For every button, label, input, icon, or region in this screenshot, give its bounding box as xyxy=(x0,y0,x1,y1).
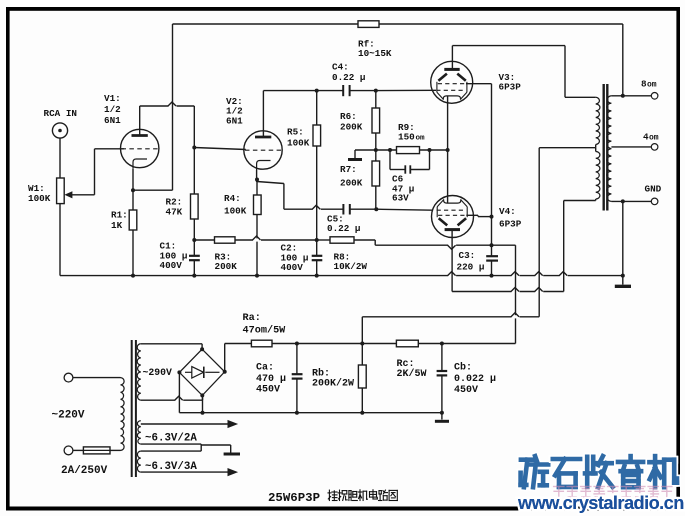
resistor R3 xyxy=(194,236,316,243)
resistor R7 xyxy=(372,150,380,209)
label GND xyxy=(645,184,662,195)
resistor Ra xyxy=(251,340,396,347)
node: ground rail junctions xyxy=(131,274,625,278)
ground symbol at PSU rail end xyxy=(435,413,449,422)
svg-text:100K: 100K xyxy=(287,138,310,149)
node: PSU rail junctions xyxy=(201,411,444,415)
wire: V3 screen to screen column xyxy=(466,84,492,246)
label R7: 200K xyxy=(340,164,363,189)
label Ca: 470u 450V xyxy=(256,363,286,396)
label C5: 0.22u xyxy=(327,214,360,235)
svg-text:0.22 µ: 0.22 µ xyxy=(327,223,360,234)
node: 8ohm / feedback junction xyxy=(621,94,625,98)
node: cathode column at bias line xyxy=(446,148,450,152)
label V2: 1/2 6N1 xyxy=(226,96,243,127)
wire: V2 cathode lead xyxy=(256,170,258,182)
node: V1 cathode / R1 / feedback xyxy=(131,188,135,192)
svg-text:450V: 450V xyxy=(256,385,280,396)
label Rb: 200K/2W xyxy=(312,368,354,390)
transformer T1 heater winding 6.3V/3A xyxy=(137,451,140,472)
wire+arrow: heater 2A top lead xyxy=(141,420,238,428)
transformer T2 output: primary winding xyxy=(596,97,600,200)
svg-text:63V: 63V xyxy=(392,193,409,204)
terminal GND xyxy=(651,198,658,205)
node: V4 screen junction xyxy=(490,215,494,219)
svg-text:R4:: R4: xyxy=(224,193,241,204)
wire: bridge minus to PSU ground rail xyxy=(178,372,180,412)
svg-text:R1:: R1: xyxy=(111,210,128,221)
svg-text:6N1: 6N1 xyxy=(104,115,121,126)
wire: W1 bottom to ground rail xyxy=(59,204,61,276)
svg-text:0.022 µ: 0.022 µ xyxy=(454,374,496,385)
svg-text:220 µ: 220 µ xyxy=(457,262,485,273)
transformer T1 heater winding 6.3V/2A xyxy=(137,421,140,444)
svg-text:47om/5W: 47om/5W xyxy=(243,325,287,337)
resistor R2 xyxy=(191,148,199,241)
vacuum tube V3 (6P3P beam tetrode) xyxy=(431,61,473,103)
wire: vertical B screen supply to B+ line xyxy=(515,245,517,343)
svg-text:om: om xyxy=(416,135,426,143)
node: R5/C2 on B+ bus xyxy=(315,238,319,242)
node: R2/C1/R3 junction on B+ bus xyxy=(192,238,196,242)
wire: PSU ground rail xyxy=(179,412,442,414)
wire: bias line to R9 xyxy=(376,149,397,151)
wire: V4 screen to screen column xyxy=(466,215,491,216)
wire: feedback rail from 8ohm tap to V1 cathode xyxy=(133,24,623,190)
svg-text:6N1: 6N1 xyxy=(226,116,243,127)
watermark logo (5 chinese characters, drawn strokes) xyxy=(521,456,677,487)
label 2A/250V xyxy=(61,465,108,477)
wire: V3 grid wire xyxy=(376,89,436,91)
watermark url www.crystalradio.cn xyxy=(517,493,684,513)
label R3: 200K xyxy=(215,252,238,273)
node: V2 cathode junction xyxy=(255,178,259,182)
label R2: 47K xyxy=(166,197,183,218)
wire: jack to W1 top xyxy=(59,138,61,178)
resistor R5 xyxy=(313,91,321,240)
vacuum tube V2 (1/2 6N1 triode) xyxy=(244,131,282,170)
svg-text:R5:: R5: xyxy=(287,127,304,138)
capacitor C1 xyxy=(189,240,200,276)
ground symbol heater center xyxy=(224,445,240,454)
svg-text:R6:: R6: xyxy=(340,111,357,122)
wire+arrow: heater 3A bottom lead xyxy=(141,468,238,476)
wire: V2 cathode to C5 xyxy=(257,182,343,211)
wire: W1 wiper to V1 grid xyxy=(73,149,125,195)
transformer T2 secondary winding xyxy=(607,96,612,202)
label V1: 1/2 6N1 xyxy=(104,93,121,126)
capacitor C2 xyxy=(312,240,323,276)
svg-text:6P3P: 6P3P xyxy=(499,219,522,230)
capacitor C3 xyxy=(486,245,498,275)
terminal 4om xyxy=(651,144,658,151)
label R9: 150om xyxy=(398,122,425,143)
label V3: 6P3P xyxy=(499,72,522,93)
node: C5 / R7 / V4 grid xyxy=(374,207,378,211)
svg-text:~6.3V/2A: ~6.3V/2A xyxy=(145,433,197,445)
svg-text:~290V: ~290V xyxy=(143,367,173,378)
wire: V3/V4 common cathode column xyxy=(447,96,449,203)
label Cb: 0.022u 450V xyxy=(454,362,496,397)
label C2: 100u 400V xyxy=(281,243,309,273)
ground symbol at rail end xyxy=(615,276,631,287)
label RCA IN xyxy=(44,108,77,119)
capacitor Ca xyxy=(292,344,303,413)
svg-text:V1:: V1: xyxy=(104,93,121,104)
label 8om xyxy=(641,79,657,90)
node: Ca junction xyxy=(295,342,299,346)
resistor Rf xyxy=(358,21,379,28)
svg-text:R7:: R7: xyxy=(340,164,357,175)
node: V1 plate / V2 grid coupling xyxy=(192,146,196,150)
node: bridge corners xyxy=(177,347,226,397)
resistor Rb xyxy=(358,344,366,413)
label C1: 100u 400V xyxy=(160,241,188,271)
svg-text:470 µ: 470 µ xyxy=(256,374,286,385)
terminal ~220V line input bottom xyxy=(64,446,73,455)
capacitor C5 xyxy=(343,204,376,215)
wire: line A (V4 plate to primary bottom) xyxy=(452,201,596,294)
transformer T1 core xyxy=(132,340,136,477)
svg-text:25W6P3P: 25W6P3P xyxy=(268,491,320,505)
vacuum tube V1 (1/2 6N1 triode) xyxy=(121,129,159,169)
wire: secondary common to GND terminal xyxy=(611,200,651,202)
terminal ~220V line input top xyxy=(64,373,73,382)
svg-text:Cb:: Cb: xyxy=(454,362,472,374)
node: R5 top xyxy=(315,89,319,93)
label R6: 200K xyxy=(340,111,363,133)
label C3: 220u xyxy=(457,250,485,273)
wire: V1 cathode lead xyxy=(132,169,134,190)
wire: V2 plate up to C4 line xyxy=(263,91,343,137)
ground symbol at bias line xyxy=(348,150,376,160)
svg-text:47K: 47K xyxy=(166,207,183,218)
label ~220V xyxy=(52,410,85,422)
node: R9/C6 left xyxy=(388,148,392,152)
svg-text:~220V: ~220V xyxy=(52,410,85,422)
label W1: 100K xyxy=(28,183,51,204)
wire: HV bottom to bridge AC2 xyxy=(141,395,203,401)
label ~6.3V/2A xyxy=(145,433,197,445)
label C4: 0.22u xyxy=(332,62,365,84)
svg-text:C3:: C3: xyxy=(459,250,476,261)
svg-text:www.crystalradio.cn: www.crystalradio.cn xyxy=(517,493,684,513)
svg-text:Ca:: Ca: xyxy=(256,363,274,374)
svg-text:200K: 200K xyxy=(215,261,238,272)
wire: bridge bottom stub xyxy=(202,395,204,412)
connector J1 RCA IN jack xyxy=(52,123,67,138)
label R1: 1K xyxy=(111,210,128,232)
svg-text:GND: GND xyxy=(645,184,662,195)
bridge rectifier D1 xyxy=(179,349,224,395)
potentiometer W1 xyxy=(57,178,73,204)
svg-text:200K/2W: 200K/2W xyxy=(312,378,354,390)
wire: bridge plus riser to B+ line xyxy=(225,344,252,372)
label 4om xyxy=(643,132,659,143)
label C6 47u 63V xyxy=(392,174,414,204)
label Ra: 47om/5W xyxy=(243,313,287,337)
svg-text:100K: 100K xyxy=(224,206,247,217)
svg-text:2A/250V: 2A/250V xyxy=(61,465,108,477)
node: Cb junction xyxy=(440,342,444,346)
wire: top input terminal to primary xyxy=(73,377,121,379)
svg-text:10~15K: 10~15K xyxy=(358,48,392,59)
capacitor C4 xyxy=(343,85,376,96)
wire: main ground rail xyxy=(60,272,623,278)
wire: V4 plate down to line A xyxy=(451,230,453,292)
caption text 25W6P3P push-pull tube amp schematic xyxy=(268,490,397,505)
node: C4 / R6 / V3 grid xyxy=(374,89,378,93)
svg-text:200K: 200K xyxy=(340,122,363,133)
svg-text:om: om xyxy=(649,134,659,143)
capacitor Cb xyxy=(437,344,448,413)
watermark faint pink text row xyxy=(554,487,672,497)
wire: V3 plate to output transformer primary top xyxy=(452,46,595,98)
wire: V1 plate to R2 top xyxy=(140,102,195,148)
node: C3 top on screen supply line xyxy=(490,243,494,247)
vacuum tube V4 (6P3P beam tetrode, mirrored) xyxy=(432,196,474,238)
node: R9/C6 right xyxy=(428,148,432,152)
svg-text:om: om xyxy=(647,81,657,90)
label V4: 6P3P xyxy=(499,206,522,230)
resistor R9 xyxy=(397,147,448,154)
label ~6.3V/3A xyxy=(145,461,197,473)
label Rf: 10~15K xyxy=(358,39,392,60)
wire: heater common leads xyxy=(141,444,231,451)
svg-text:400V: 400V xyxy=(160,260,183,271)
svg-text:0.22 µ: 0.22 µ xyxy=(332,72,365,83)
svg-text:~6.3V/3A: ~6.3V/3A xyxy=(145,461,197,473)
svg-text:100K: 100K xyxy=(28,193,51,204)
svg-text:1K: 1K xyxy=(111,220,123,231)
node: R6/R7 junction xyxy=(374,148,378,152)
svg-text:450V: 450V xyxy=(454,385,478,396)
wire: GND tap down to ground rail xyxy=(622,201,624,275)
svg-text:C4:: C4: xyxy=(332,62,349,73)
label ~290V xyxy=(143,367,173,378)
wire: V4 grid wire xyxy=(376,209,433,210)
label R5: 100K xyxy=(287,127,310,149)
svg-text:400V: 400V xyxy=(281,262,304,273)
resistor R8 xyxy=(317,237,516,249)
wire: 8ohm tap xyxy=(611,95,651,97)
wire: HV top to bridge AC1 xyxy=(141,344,202,349)
svg-text:Ra:: Ra: xyxy=(243,313,261,324)
transformer T1 primary winding xyxy=(121,378,125,451)
resistor R6 xyxy=(372,91,380,150)
transformer T1 HV secondary ~290V xyxy=(137,344,141,400)
wire: 4ohm tap xyxy=(611,146,651,148)
wire: vertical D primary CT feed xyxy=(362,148,539,344)
node: Rb / primary CT junction xyxy=(360,342,364,346)
transformer T2 core xyxy=(604,84,608,211)
svg-text:RCA IN: RCA IN xyxy=(44,108,77,119)
svg-text:1/2: 1/2 xyxy=(104,104,121,115)
fuse 2A/250V xyxy=(73,447,121,454)
terminal 8om xyxy=(651,93,658,100)
label R4: 100K xyxy=(224,193,247,217)
label R8: 10K/2W xyxy=(334,252,368,273)
svg-text:V4:: V4: xyxy=(499,206,516,217)
resistor R4 xyxy=(254,182,262,276)
svg-text:200K: 200K xyxy=(340,178,363,189)
svg-text:2K/5W: 2K/5W xyxy=(397,368,427,380)
svg-text:150: 150 xyxy=(398,132,415,143)
capacitor C6 xyxy=(390,150,430,174)
wire: V2 grid wire xyxy=(194,148,246,150)
wire: primary center tap line xyxy=(539,147,596,149)
svg-text:10K/2W: 10K/2W xyxy=(334,261,368,272)
node: GND tap junction xyxy=(621,199,625,203)
resistor R1 xyxy=(129,190,137,275)
svg-text:6P3P: 6P3P xyxy=(499,82,522,93)
resistor Rc xyxy=(396,340,515,347)
label Rc: 2K/5W xyxy=(397,359,427,380)
